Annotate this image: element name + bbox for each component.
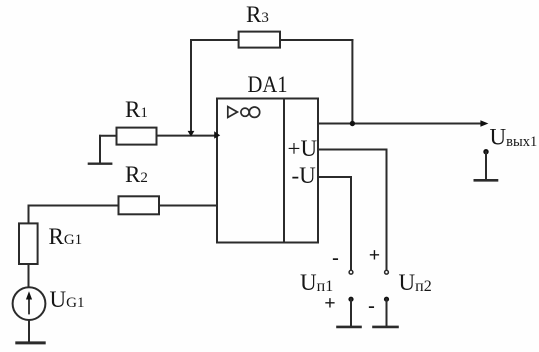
wire: R1 left lead	[100, 135, 117, 137]
wire: Up2 bottom to ground	[386, 299, 388, 326]
junction arrow at node A (feedback junction)	[188, 131, 195, 137]
terminal circle Up1 minus	[349, 270, 353, 274]
svg-text:DA1: DA1	[248, 72, 288, 97]
terminal dot Up2 bottom	[384, 297, 389, 302]
output arrow head	[480, 120, 488, 127]
resistor R3	[239, 32, 280, 48]
op-amp DA1 internal divider	[283, 99, 285, 243]
ground at R1	[89, 162, 111, 164]
source UG1 arrow head	[26, 291, 32, 299]
wire: Up1 bottom to ground	[350, 299, 352, 326]
source UG1 circle	[13, 287, 46, 320]
ground at UG1	[17, 341, 44, 344]
wire: +U pin lead	[318, 149, 387, 151]
svg-text:+: +	[369, 245, 380, 267]
terminal circle Up2 plus	[385, 270, 389, 274]
op-amp amplifier symbol infinity circles	[241, 108, 249, 116]
svg-text:-: -	[332, 247, 339, 269]
resistor RG1	[19, 223, 38, 264]
op-amp U=DA1 body	[217, 99, 318, 243]
wire: RG1 to UG1	[28, 264, 30, 287]
junction dot at output/feedback node	[350, 121, 355, 126]
wire: R3 right horizontal	[280, 39, 352, 41]
terminal dot Up1 bottom	[348, 297, 353, 302]
wire: R1 ground drop	[99, 136, 101, 163]
svg-text:-U: -U	[292, 163, 317, 188]
junction arrow at op-amp inverting input	[214, 131, 220, 138]
wire: -U pin lead	[318, 176, 351, 178]
wire: UG1 to ground	[28, 320, 30, 341]
svg-text:+: +	[324, 293, 335, 315]
wire: R3 left horizontal	[191, 39, 239, 41]
wire: R3 right vertical down to output node	[351, 40, 353, 124]
wire: R3 left vertical down to inverting input node	[190, 40, 192, 134]
ground at Up1	[338, 326, 361, 329]
resistor R1	[117, 128, 157, 145]
wire: +U down to Up2 terminal	[386, 150, 388, 270]
wire: RG1 top lead	[28, 206, 30, 224]
op-amp amplifier symbol triangle	[228, 107, 238, 118]
ground at Up2	[374, 326, 398, 329]
resistor R2	[119, 196, 160, 214]
svg-text:+U: +U	[288, 136, 318, 161]
wire: -U down to Up1 terminal	[350, 177, 352, 269]
ground at output	[475, 179, 497, 182]
source UG1 arrow shaft	[28, 296, 30, 314]
output reference terminal dot	[483, 149, 488, 154]
svg-text:-: -	[368, 295, 375, 317]
wire: R2 left lead	[29, 205, 119, 207]
wire: R2 to non-inverting input	[159, 205, 216, 207]
wire: output reference to ground	[485, 152, 487, 179]
wire: op-amp output	[318, 123, 481, 125]
wire: R1 to inverting input	[157, 135, 217, 137]
